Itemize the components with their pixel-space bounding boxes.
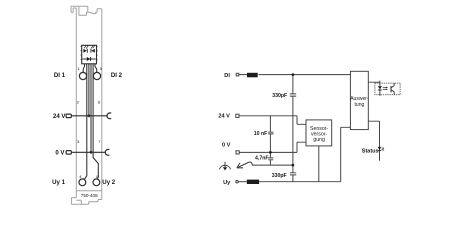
- svg-text:0 V: 0 V: [55, 149, 65, 156]
- svg-text:330pF: 330pF: [272, 93, 287, 99]
- svg-text:4,7nF: 4,7nF: [255, 156, 269, 162]
- svg-text:Uy: Uy: [223, 180, 231, 186]
- svg-text:DI: DI: [224, 73, 230, 79]
- svg-text:24 V: 24 V: [53, 113, 66, 120]
- svg-text:0 V: 0 V: [222, 143, 231, 149]
- svg-text:24 V: 24 V: [218, 114, 230, 120]
- svg-text:10 nF: 10 nF: [254, 131, 268, 137]
- svg-text:Auswer-: Auswer-: [350, 96, 369, 102]
- svg-text:330pF: 330pF: [272, 173, 287, 179]
- svg-text:750-408: 750-408: [81, 193, 98, 198]
- svg-text:Status: Status: [362, 148, 379, 154]
- svg-text:gung: gung: [313, 137, 325, 143]
- svg-text:DI 1: DI 1: [54, 72, 66, 79]
- svg-text:tung: tung: [355, 102, 365, 108]
- svg-text:DI 2: DI 2: [111, 72, 123, 79]
- svg-text:Uy 2: Uy 2: [102, 179, 115, 186]
- svg-text:Uy 1: Uy 1: [52, 179, 65, 186]
